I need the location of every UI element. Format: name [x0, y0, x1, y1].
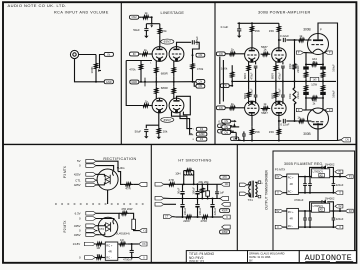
svg-text:6SN7: 6SN7	[164, 118, 172, 122]
svg-text:47R: 47R	[169, 178, 174, 182]
terminal OUT linestage	[196, 53, 205, 57]
wire to grid resistor	[139, 53, 142, 55]
svg-text:CN: CN	[224, 130, 228, 134]
terminal HT in flag	[155, 183, 164, 187]
svg-text:20k: 20k	[163, 129, 168, 133]
svg-text:1k: 1k	[297, 116, 301, 120]
terminal IN linestage stage1	[130, 52, 139, 56]
svg-text:P: P	[320, 27, 322, 31]
cathode resistor 680R V1a upper	[155, 61, 157, 64]
svg-text:100k: 100k	[288, 63, 292, 69]
reg top rail	[298, 176, 311, 178]
TX1 core	[251, 181, 253, 198]
svg-text:C: C	[226, 216, 228, 219]
wire 0 to rectifier top	[96, 166, 114, 171]
B+ terminal CN row3	[222, 131, 231, 135]
ground rail linestage	[139, 81, 193, 83]
terminal 0 out flag reg	[333, 226, 336, 228]
svg-text:13.8V: 13.8V	[73, 242, 81, 246]
terminal flag TX primary top	[240, 183, 247, 187]
svg-text:LINESTAGE: LINESTAGE	[161, 11, 185, 15]
reg output rail	[330, 210, 345, 212]
wire 20k to plate of V1a	[159, 35, 161, 47]
terminal GND heater	[196, 132, 207, 136]
capacitor 4700uF b reg	[309, 211, 311, 218]
svg-text:6SN7: 6SN7	[164, 40, 172, 44]
tube 300B lower	[308, 108, 329, 129]
svg-text:680R: 680R	[161, 86, 168, 90]
svg-text:4R: 4R	[290, 217, 293, 220]
electrolytic 220uF upper left	[305, 64, 307, 66]
wire bottom to 0 flag out	[118, 257, 139, 259]
svg-text:450R: 450R	[222, 210, 228, 213]
svg-text:50uF: 50uF	[133, 28, 140, 32]
svg-text:L7805CV: L7805CV	[313, 170, 324, 173]
resistor 1R filament dc b	[94, 257, 96, 259]
wire grid stop to V1a grid	[149, 53, 153, 55]
title block DRAWN cell	[248, 251, 300, 263]
svg-text:ISSUE: 03: ISSUE: 03	[189, 259, 204, 263]
svg-text:470uF: 470uF	[251, 88, 254, 96]
svg-text:OUTPUT TRANSFORMER: OUTPUT TRANSFORMER	[265, 169, 269, 209]
capacitor 4700uF filament	[131, 244, 133, 250]
filament pin wires upper 300B	[306, 52, 313, 54]
wire V1b plate to coupling cap	[177, 42, 192, 47]
potentiometer VR1 100K	[95, 55, 98, 78]
wire 425V a to anode	[96, 173, 99, 175]
svg-text:CN: CN	[225, 183, 229, 186]
svg-text:20k: 20k	[162, 29, 167, 33]
resistor 20k bleeder a	[201, 187, 204, 193]
rectifier output wire	[118, 172, 123, 185]
B+ terminal CN row1	[222, 119, 231, 123]
svg-text:0 22uF: 0 22uF	[280, 34, 289, 38]
svg-text:DRAWN: CLAUS MOLGAARD: DRAWN: CLAUS MOLGAARD	[249, 252, 284, 256]
terminal 0 out flag reg	[333, 192, 336, 194]
terminal mid flag right	[220, 197, 229, 201]
reg bottom rail	[298, 192, 334, 194]
svg-text:1/2W: 1/2W	[311, 83, 317, 86]
terminal IN power amp bottom	[216, 106, 225, 110]
cathode network V3b cap 470uF	[282, 62, 284, 65]
svg-text:CT2: CT2	[99, 227, 105, 231]
tube 6SN7 V1b	[169, 47, 184, 62]
filament wire up left lower 300B	[305, 98, 307, 110]
electrolytic 220uF lower right	[320, 92, 326, 95]
svg-text:300B POWER-AMPLIFIER: 300B POWER-AMPLIFIER	[258, 11, 311, 15]
wire CT2 stub	[96, 230, 98, 232]
terminal box 470 right	[220, 175, 230, 179]
terminal CN cathode rail	[220, 84, 229, 88]
svg-text:BY:: BY:	[249, 259, 253, 263]
svg-text:IN: IN	[108, 52, 111, 56]
resistor lower right from mid rail	[322, 81, 324, 84]
wire 470k to rail	[192, 70, 194, 82]
svg-text:4R: 4R	[108, 249, 111, 253]
svg-text:CT: CT	[165, 216, 169, 219]
feedback bus vertical b	[222, 60, 224, 102]
svg-text:IN: IN	[133, 52, 136, 56]
protection diode 1N4002	[327, 167, 333, 176]
capacitor 100uF branch A2	[197, 184, 199, 191]
svg-text:RC +: RC +	[106, 243, 112, 247]
terminal CN rail B	[194, 82, 196, 87]
capacitor 9.35uF output coupling	[191, 40, 193, 44]
wire 5V to rectifier top	[96, 161, 118, 171]
svg-text:1k5: 1k5	[312, 79, 317, 82]
capacitor 4700uF a reg	[304, 177, 306, 184]
svg-text:100uF: 100uF	[332, 90, 336, 98]
capacitor 4700uF a reg	[304, 211, 306, 218]
reg top rail	[298, 210, 311, 212]
tube 5687 V4a	[245, 101, 259, 115]
small resistor after flag	[226, 130, 232, 133]
svg-text:15K: 15K	[269, 29, 274, 33]
HT rail top	[184, 183, 217, 185]
resistor 15K plate load c	[251, 116, 253, 127]
terminal F right upper	[325, 51, 332, 54]
capacitor 50uF linestage	[145, 24, 147, 29]
terminal F out flag b	[344, 176, 346, 178]
rectifier tube 5U4G	[97, 169, 118, 190]
terminal F3 out flag	[139, 242, 147, 246]
terminal 0 flag a	[86, 164, 96, 168]
ground below 50uF stage2	[144, 136, 148, 138]
svg-text:CN: CN	[345, 139, 349, 142]
svg-text:470k: 470k	[197, 67, 204, 71]
wire pot bottom to ground rail	[95, 78, 97, 82]
svg-text:CN: CN	[199, 53, 203, 57]
wire CT1	[96, 179, 97, 181]
resistor 1k interstage bottom	[261, 107, 271, 110]
cathode network V3a resistor 680R	[248, 61, 250, 63]
svg-text:100k: 100k	[288, 93, 292, 99]
cathode wire V2a down	[158, 112, 160, 127]
svg-text:680R: 680R	[244, 73, 247, 79]
terminal GND	[104, 80, 113, 84]
svg-text:4700uF: 4700uF	[294, 198, 304, 202]
filament wire down left	[305, 53, 307, 65]
svg-text:6.3V: 6.3V	[75, 211, 81, 215]
wire 435V a to anode2	[96, 225, 99, 227]
wire junction down	[151, 17, 153, 24]
svg-text:50uF: 50uF	[135, 129, 142, 133]
terminal IN power amp top	[216, 52, 225, 56]
terminal CN lower left a	[218, 124, 226, 128]
mid filament rail	[296, 80, 336, 82]
svg-text:100uF: 100uF	[332, 64, 336, 72]
svg-text:680R: 680R	[161, 72, 168, 76]
svg-text:1k: 1k	[145, 99, 149, 103]
B+ top rail	[238, 22, 279, 24]
section divider HT-smoothing/output-transformer	[236, 144, 238, 262]
cathode network V4a resistor 680R	[248, 81, 250, 89]
terminal 435V flag a	[86, 224, 96, 228]
tube 6SN7 V2a	[152, 98, 167, 113]
wire jack ground to GND terminal	[75, 59, 105, 82]
resistor block vertical	[132, 219, 136, 229]
svg-text:220uF: 220uF	[336, 217, 344, 221]
svg-text:GND: GND	[131, 80, 137, 84]
svg-text:GND: GND	[106, 80, 112, 84]
resistor 1k grid bottom	[225, 107, 229, 109]
tube 6SN7 V2b	[169, 98, 184, 113]
wire 435V b to anode2	[96, 234, 99, 236]
svg-text:RC -: RC -	[288, 191, 293, 194]
svg-text:470: 470	[222, 175, 227, 179]
svg-text:100k: 100k	[221, 67, 228, 71]
svg-text:300B: 300B	[303, 27, 310, 31]
wire 0 to rectifier2	[96, 218, 114, 220]
svg-text:RCA INPUT AND VOLUME: RCA INPUT AND VOLUME	[54, 10, 109, 14]
resistor 470k input shunt	[140, 61, 142, 64]
svg-text:1R: 1R	[96, 246, 100, 250]
cathode network V4b cap 470uF	[282, 81, 284, 94]
svg-text:DATE: 31 01 1996: DATE: 31 01 1996	[249, 255, 271, 259]
svg-text:5687: 5687	[261, 111, 268, 115]
resistor 20k bleeder b box	[206, 191, 210, 196]
cathode rail power amp	[232, 80, 296, 82]
svg-text:5U4G: 5U4G	[117, 166, 126, 170]
RCA jack J1	[70, 50, 78, 58]
capacitor branch B3	[212, 199, 214, 204]
terminal 0 flag c	[86, 217, 96, 221]
terminal C flag right	[222, 215, 231, 219]
output transformer TX1 primary winding	[249, 182, 251, 197]
hum resistor 4/10 2k lower	[306, 97, 323, 100]
bridge rectifier RC block	[105, 242, 118, 260]
capacitor 220uF reg	[332, 211, 334, 218]
svg-text:CN: CN	[224, 119, 228, 123]
terminal 425V flag a	[86, 173, 96, 177]
horizontal section divider	[3, 143, 356, 145]
svg-text:47R: 47R	[125, 186, 130, 190]
svg-text:470uF: 470uF	[278, 88, 281, 96]
svg-text:TX1: TX1	[248, 198, 254, 202]
resistor upper left to mid rail	[305, 70, 307, 71]
resistor 1R output	[118, 243, 128, 246]
terminal 6.3V flag	[86, 212, 96, 216]
capacitor 0.22uF coupling lower	[282, 119, 284, 123]
svg-text:15K: 15K	[255, 29, 260, 33]
terminal 0 flag reg	[275, 191, 283, 195]
svg-text:RC -: RC -	[288, 225, 293, 228]
svg-text:5V: 5V	[77, 159, 81, 163]
capacitor branch B2	[197, 199, 199, 204]
ground below 20k stage2	[157, 137, 161, 139]
wire wiper to IN terminal	[100, 55, 105, 69]
resistor 20k cathode stage2	[157, 127, 160, 134]
terminal CN2 linestage input	[130, 15, 139, 19]
resistor 1k grid stage1	[141, 53, 149, 56]
terminal F out flag a	[339, 172, 341, 177]
svg-text:100uF: 100uF	[198, 207, 202, 215]
svg-text:RECTIFICATION: RECTIFICATION	[103, 157, 136, 161]
svg-text:470uF: 470uF	[251, 72, 254, 80]
capacitor 0.22uF coupling top	[282, 38, 284, 42]
svg-text:HT SMOOTHING: HT SMOOTHING	[178, 158, 211, 162]
svg-text:470k: 470k	[129, 67, 136, 71]
svg-text:P2 MTX: P2 MTX	[63, 220, 67, 233]
TX1 secondary winding	[255, 182, 257, 196]
svg-text:5U4G(6X4): 5U4G(6X4)	[116, 231, 130, 235]
svg-text:0.1uF: 0.1uF	[221, 25, 229, 29]
filament pins lower 300B	[306, 109, 313, 111]
svg-text:9 35uF: 9 35uF	[195, 36, 199, 45]
tube 5687 V3b	[272, 48, 286, 62]
ground below 50uF	[144, 36, 148, 38]
terminal IN	[104, 52, 113, 56]
terminal flag TX primary bottom	[240, 192, 247, 196]
svg-text:680R: 680R	[271, 73, 274, 79]
wire 300B lower plate to output line	[318, 129, 338, 141]
rectifier tube 5U4G(6X4)	[98, 217, 118, 237]
filament wire down right	[322, 53, 324, 64]
svg-text:1k: 1k	[144, 48, 148, 52]
svg-text:1k: 1k	[299, 34, 303, 38]
svg-text:1R: 1R	[96, 253, 100, 257]
terminal F left lower	[296, 108, 303, 111]
svg-text:680R: 680R	[244, 93, 247, 99]
wire 6.3V to rectifier2	[96, 213, 119, 219]
svg-text:2200: 2200	[183, 219, 190, 223]
wire loop right of V2	[177, 96, 191, 115]
wire 300B plate to output line	[318, 23, 338, 141]
terminal GND linestage	[130, 80, 139, 84]
filament reg box	[273, 151, 355, 251]
svg-text:100uF: 100uF	[191, 187, 195, 195]
svg-text:5V: 5V	[276, 210, 279, 213]
svg-text:435V: 435V	[74, 224, 81, 228]
capacitor 50uF branch A1	[182, 184, 184, 191]
section divider linestage/power-amp	[214, 2, 216, 144]
svg-text:1R: 1R	[120, 238, 124, 242]
TX1 secondary taps	[255, 181, 258, 183]
capacitor 4700uF b reg	[309, 177, 311, 184]
svg-text:220uF: 220uF	[296, 91, 300, 99]
tube 6SN7 V1 label	[161, 39, 174, 44]
svg-text:RC +: RC +	[288, 211, 294, 214]
filament wire up right lower 300B	[322, 98, 324, 110]
wire 425V b to anode	[96, 184, 99, 186]
label 1k5 mid boxed	[310, 77, 319, 81]
terminal F right lower	[325, 108, 332, 111]
resistor lower left from mid rail	[305, 81, 307, 84]
svg-text:1k: 1k	[145, 11, 149, 15]
resistor 1k 300B grid lower	[286, 120, 297, 122]
terminal HT out flag right	[221, 182, 230, 186]
svg-text:CN: CN	[219, 52, 223, 56]
svg-text:CN: CN	[199, 80, 203, 84]
cathode resistor 680R V1b upper	[173, 61, 175, 64]
terminal F3 heater 2	[196, 137, 207, 141]
cathode network V4b resistor 680R	[275, 81, 277, 89]
terminal F left upper	[296, 51, 303, 54]
svg-text:220uF: 220uF	[336, 183, 344, 187]
wire rectifier cathode down	[107, 190, 109, 204]
svg-text:GND: GND	[199, 132, 205, 136]
terminal CT flag left	[163, 215, 172, 219]
tube 6SN7 V1a	[152, 47, 167, 62]
B+ terminal CN row2	[222, 125, 231, 129]
capacitor 220uF reg	[332, 177, 334, 184]
regulator L7805CV	[312, 203, 330, 212]
svg-text:4700: 4700	[200, 219, 207, 223]
resistor 1k 300B grid top	[286, 39, 297, 41]
resistor 47R rectifier output	[123, 183, 133, 186]
ground below 0.1uF	[237, 36, 241, 38]
svg-text:CN: CN	[224, 125, 228, 129]
tube 6SN7 V2 label	[161, 117, 174, 122]
resistor 1k grid stage2	[143, 104, 150, 107]
svg-text:100uF: 100uF	[183, 207, 187, 215]
resistor upper right to mid rail	[322, 70, 324, 71]
terminal F out flag a	[339, 206, 341, 211]
wire cap to out node	[193, 42, 200, 55]
svg-text:5V: 5V	[276, 176, 279, 179]
svg-text:300B: 300B	[303, 132, 310, 136]
section divider rectification/HT-smoothing	[150, 144, 152, 262]
terminal HT out flag	[133, 183, 138, 185]
wire V3b plate to coupling cap	[279, 40, 281, 48]
dashed separator	[55, 203, 147, 205]
svg-text:RC -: RC -	[106, 256, 111, 260]
terminal 425V flag b	[86, 183, 96, 187]
wire jack to pot	[79, 54, 96, 56]
svg-text:220uF: 220uF	[213, 207, 217, 215]
svg-text:15K: 15K	[255, 130, 260, 134]
arrow down on node	[150, 25, 153, 27]
svg-text:100K: 100K	[90, 66, 94, 73]
svg-text:1k: 1k	[231, 102, 235, 106]
reg bottom rail	[298, 226, 334, 228]
svg-text:470uF: 470uF	[278, 72, 281, 80]
wire V4b plate to coupling cap lower	[279, 116, 281, 122]
electrolytic 20uF lower left	[303, 92, 309, 95]
terminal CN bottom rail	[231, 137, 239, 141]
svg-text:1k: 1k	[263, 102, 267, 106]
wire horizontal to cap and 20k	[146, 23, 159, 25]
terminal 0 flag reg	[275, 225, 283, 229]
bridge RC block reg	[287, 174, 299, 194]
junction bars	[144, 78, 146, 87]
svg-text:CT1: CT1	[75, 178, 81, 182]
terminal CN lower left b	[218, 129, 226, 133]
terminal 5V flag	[86, 159, 96, 163]
terminal 0 flag right b	[222, 202, 231, 206]
resistor 15K plate load d	[278, 121, 280, 127]
svg-text:4R: 4R	[290, 183, 293, 186]
svg-text:1k: 1k	[231, 48, 235, 52]
cathode network V3a cap 470uF	[255, 61, 257, 64]
svg-text:L7805CV: L7805CV	[313, 205, 324, 208]
svg-text:CN: CN	[219, 106, 223, 110]
svg-text:425V: 425V	[74, 183, 81, 187]
title block TITLE cell	[186, 251, 247, 263]
resistor 680R lower right	[173, 82, 175, 87]
svg-text:RC +: RC +	[288, 176, 294, 179]
terminal box 205R right	[220, 230, 230, 234]
title block AUDIONOTE logo cell	[299, 251, 356, 263]
svg-text:P3 MTX: P3 MTX	[275, 168, 286, 172]
terminal 0 out flag	[139, 256, 147, 260]
terminal F out flag b	[344, 210, 346, 212]
svg-text:CN2: CN2	[131, 15, 137, 19]
svg-text:HTR: HTR	[189, 135, 194, 137]
svg-text:205R: 205R	[222, 231, 228, 234]
wire loop left of tubes	[126, 60, 152, 62]
terminal CT1 flag	[86, 178, 96, 182]
